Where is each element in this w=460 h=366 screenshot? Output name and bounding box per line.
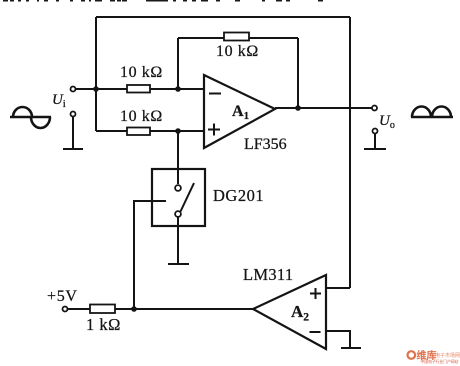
- svg-text:10 kΩ: 10 kΩ: [120, 64, 163, 81]
- svg-text:Uo: Uo: [379, 113, 395, 131]
- svg-text:LF356: LF356: [244, 136, 287, 153]
- svg-text:Ui: Ui: [52, 92, 66, 110]
- svg-text:1 kΩ: 1 kΩ: [86, 315, 121, 334]
- svg-text:10 kΩ: 10 kΩ: [216, 43, 259, 60]
- svg-text:LM311: LM311: [243, 265, 293, 284]
- svg-text:中国电子行业门户网站: 中国电子行业门户网站: [421, 359, 459, 364]
- svg-text:DG201: DG201: [213, 186, 264, 205]
- svg-text:+5V: +5V: [47, 288, 78, 305]
- svg-text:电子市场网: 电子市场网: [435, 352, 460, 359]
- svg-text:10 kΩ: 10 kΩ: [120, 108, 163, 125]
